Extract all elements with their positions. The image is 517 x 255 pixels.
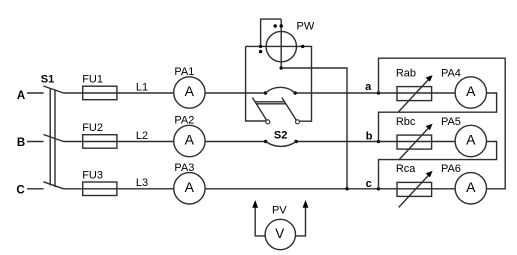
ammeter PA3 [174,173,205,204]
svg-text:A: A [466,132,476,148]
switch S2 upper pole blade left [252,98,266,121]
switch S2 upper pole bridge arc [266,87,296,93]
wire PA4 return to node b [379,93,497,142]
svg-text:S2: S2 [274,130,287,142]
svg-text:PA1: PA1 [174,66,194,78]
wattmeter PW current coil right terminal dot [301,45,304,48]
svg-text:S1: S1 [41,73,54,85]
switch S1 pole A blade [43,86,63,93]
switch S2 linkage line 1 [255,101,284,103]
wattmeter PW junction dot left [259,45,262,48]
wire FU2 to PA2, net L2 [117,141,174,143]
svg-text:A: A [17,90,25,102]
svg-text:PA6: PA6 [441,163,461,175]
wire S1 to FU2 [64,141,83,143]
junction dot PW return on L3 [345,187,348,190]
wire S1 to FU1 [64,92,83,94]
ammeter PA1 [174,77,205,108]
wire S2 upper right contact to node a [295,92,378,94]
fuse FU3 [83,182,117,196]
ammeter PA2 [174,125,205,156]
svg-text:V: V [275,226,284,241]
wire A input stub [27,92,44,94]
wire Rbc to PA5 [432,141,456,143]
switch S1 pole C blade [43,182,63,189]
wattmeter PW terminal junction dot top [280,24,283,27]
wire PW voltage coil return to L3 [281,68,347,189]
ammeter PA4 [455,77,486,108]
svg-text:b: b [366,130,373,142]
fuse FU1 [83,86,117,100]
ammeter PA6 [455,173,486,204]
wire node c to Rca [379,188,398,190]
PV right probe arrowhead [303,200,309,208]
voltmeter PV [265,219,295,249]
wire Rab to PA4 [432,92,456,94]
wattmeter PW voltage coil line [280,19,282,68]
ammeter PA5 [455,125,486,156]
wattmeter PW polarity dot left [259,50,262,53]
wire C input stub [27,188,44,190]
switch S2 upper pole contact dots on L1 [264,91,267,94]
wire node a to Rab [379,92,398,94]
switch S2 linkage line 2 [257,103,287,105]
wire FU3 to PA3, net L3 [117,188,174,190]
svg-text:A: A [185,179,195,195]
svg-text:PW: PW [297,20,315,32]
svg-text:C: C [16,184,24,196]
svg-text:PA3: PA3 [174,162,194,174]
switch S2 blade left open contact [266,120,270,124]
wattmeter PW voltage coil hook wire [261,19,282,46]
wattmeter PW voltage coil bottom terminal dot [280,66,283,69]
svg-text:FU2: FU2 [82,122,103,134]
wire Rca to PA6 [432,188,456,190]
switch S1 linkage bar line 1 [49,88,51,185]
svg-text:A: A [185,132,195,148]
svg-text:L2: L2 [136,130,148,142]
svg-text:PA2: PA2 [174,115,194,127]
svg-text:A: A [466,179,476,195]
svg-text:FU3: FU3 [82,169,103,181]
svg-text:B: B [17,137,25,149]
wire PW current coil left lead down [246,46,266,121]
wire PA3 to node c [205,188,378,190]
wattmeter PW [266,31,296,61]
resistor Rca (variable) [397,182,432,196]
wire B input stub [27,141,44,143]
svg-text:L1: L1 [136,81,148,93]
svg-text:L3: L3 [136,177,148,189]
wattmeter PW current coil line [246,45,303,47]
wire PA6 return to node a [379,58,506,189]
switch S2 lower pole bridge arc [266,142,296,147]
wire S2 lower right contact to node b [296,141,378,143]
wire PW current coil right lead down [300,46,312,121]
switch S1 linkage bar line 2 [54,89,56,187]
switch S1 pole B blade [43,135,63,142]
resistor Rbc (variable) [397,135,432,149]
node a junction dot [377,91,380,94]
node c junction dot [377,187,380,190]
svg-text:Rbc: Rbc [396,116,416,128]
svg-text:FU1: FU1 [82,74,103,86]
wire PA1 to S2 upper contact [205,92,265,94]
svg-text:a: a [365,81,372,93]
svg-text:Rab: Rab [396,67,416,79]
wire S1 to FU3 [64,188,83,190]
wire FU1 to PA1, net L1 [117,92,174,94]
fuse FU2 [83,135,117,149]
svg-text:c: c [366,178,372,190]
wire PA2 to S2 lower contact [205,141,266,143]
resistor Rab (variable) [397,87,432,101]
wattmeter PW polarity dot top [274,24,277,27]
wire node b to Rbc [379,141,398,143]
switch S2 lower pole contact dots on L2 [264,140,267,143]
switch S2 upper pole blade right [282,98,296,121]
svg-text:PV: PV [272,205,287,217]
wire PA5 return to node c [379,142,497,189]
PV left probe arrowhead [252,200,258,208]
svg-text:PA5: PA5 [441,116,461,128]
svg-text:PA4: PA4 [441,67,461,79]
switch S2 blade right open contact [296,120,300,124]
wire PV right probe [295,207,305,236]
svg-text:A: A [466,83,476,99]
node b junction dot [377,140,380,143]
svg-text:Rca: Rca [396,163,416,175]
wire PV left probe [255,207,265,236]
svg-text:A: A [185,83,195,99]
